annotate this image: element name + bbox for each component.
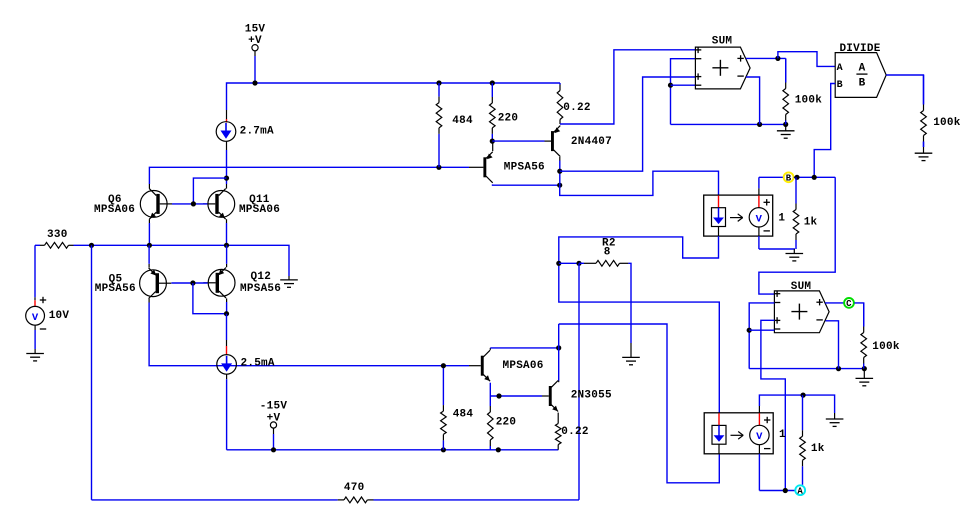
- junction bottom base link: [190, 280, 195, 285]
- junction node B / 1k: [794, 175, 799, 180]
- meter block HB (current-controlled V source): [704, 195, 773, 236]
- wire 2N3055 base net: [490, 395, 542, 397]
- wire node A left segment: [759, 490, 795, 492]
- junction node A / SUM2 input3 branch: [783, 488, 788, 493]
- wire Q5 collector up to rail: [148, 245, 150, 263]
- ground (SUM2 output network): [856, 369, 874, 386]
- wire HA V+ black stub: [758, 406, 760, 413]
- wire SUM2 input3 (+) from node A net: [761, 320, 785, 490]
- junction rail / feedback column: [89, 243, 94, 248]
- ground (R2): [622, 343, 640, 365]
- wire 2N3055 collector node vertical: [558, 324, 560, 381]
- svg-text:SUM: SUM: [712, 36, 733, 48]
- wire HB current return via R2 node to HA current input: [559, 236, 720, 413]
- svg-text:A: A: [837, 63, 843, 74]
- junction rail / Q11-Q12: [224, 243, 229, 248]
- svg-text:2N4407: 2N4407: [571, 136, 612, 148]
- svg-text:-15V: -15V: [260, 401, 288, 413]
- node A (cyan): [795, 485, 805, 496]
- junction SUM2 input4: [747, 328, 752, 333]
- wire 15V stem: [254, 56, 256, 83]
- wire SUM1 ground net horizontal: [671, 123, 786, 125]
- wire MPSA06 emitter down / 220b top: [489, 383, 491, 406]
- svg-text:484: 484: [453, 408, 474, 420]
- resistor 100k (SUM1 output): [783, 58, 789, 124]
- wire V1 - black lead: [34, 325, 36, 330]
- wire HA V- down to node A wire: [758, 454, 760, 491]
- wire 2N4407 node to SUM1 input3 (+): [560, 77, 696, 171]
- wire node B left segment: [759, 176, 784, 178]
- svg-text:SUM: SUM: [791, 281, 812, 293]
- wire V1 + black lead: [34, 297, 36, 300]
- wire Q12 top black lead: [226, 264, 228, 267]
- junction 484b / base net: [441, 363, 446, 368]
- resistor 100k (DIVIDE output): [921, 75, 927, 147]
- wire SUM1 out+ down to 100k: [785, 58, 787, 82]
- wire -15V stem black stub: [273, 428, 275, 434]
- wire DIVIDE input B from node B: [814, 84, 835, 178]
- wire Q11 emitter black lead: [226, 219, 228, 223]
- wire 0.22/2N4407 node to SUM1 input1 (+): [560, 50, 695, 124]
- wire MPSA06 base black lead: [469, 365, 481, 367]
- svg-text:100k: 100k: [933, 117, 961, 129]
- junction node B / DIVIDE B branch: [812, 175, 817, 180]
- wire MPSA56 emitter to node: [493, 183, 560, 186]
- wire Q6 emitter black lead: [148, 219, 150, 223]
- resistor 1k (node B): [793, 177, 799, 249]
- svg-text:DIVIDE: DIVIDE: [839, 43, 880, 55]
- wire I1 bottom black lead: [226, 141, 228, 150]
- wire rail to R 330 left: [35, 244, 40, 246]
- svg-text:470: 470: [344, 482, 365, 494]
- wire bottom rail left of 470: [92, 499, 338, 501]
- svg-text:15V: 15V: [245, 23, 266, 35]
- svg-text:V: V: [756, 213, 763, 225]
- svg-text:2N3055: 2N3055: [571, 389, 612, 401]
- wire Q11 collector: [226, 178, 228, 184]
- wire HB V+ up to node B wire: [758, 177, 760, 188]
- svg-text:B: B: [859, 78, 866, 90]
- junction 100k / ground net: [783, 122, 788, 127]
- transistor 2N3055 (bottom output, NPN): [549, 381, 558, 412]
- wire emitter rail to ground: [74, 245, 290, 272]
- resistor 484 (top): [436, 83, 442, 167]
- ground (HB minus): [786, 249, 804, 261]
- wire Q11 collector black lead: [226, 184, 228, 189]
- op block DIVIDE (U3): [835, 53, 886, 98]
- ground (HA plus): [826, 413, 844, 426]
- svg-text:0.22: 0.22: [561, 426, 588, 438]
- wire R2 left node: [559, 262, 579, 264]
- current source I1 2.7mA: [216, 122, 236, 142]
- svg-text:2.5mA: 2.5mA: [241, 357, 275, 369]
- junction rail / 220b: [496, 447, 501, 452]
- wire I2 bottom black lead: [226, 374, 228, 379]
- svg-text:MPSA06: MPSA06: [94, 204, 135, 216]
- wire I2 top: [226, 314, 228, 340]
- wire R2 left node down to bottom feedback rail: [578, 263, 580, 500]
- wire HB V- down: [758, 236, 760, 249]
- wire MPSA56 collector lead up: [492, 141, 494, 151]
- transistor MPSA56 (top driver, PNP): [483, 152, 492, 183]
- ground (emitter rail): [280, 272, 298, 287]
- svg-text:MPSA56: MPSA56: [504, 162, 545, 174]
- transistor 2N4407 (top output, PNP): [551, 126, 560, 157]
- junction Q12 / I2: [224, 311, 229, 316]
- wire node B right segment: [794, 176, 835, 178]
- wire Q12 bottom black lead: [226, 298, 228, 302]
- node B (yellow): [784, 172, 794, 183]
- wire HB V+ black stub: [758, 188, 760, 195]
- wire Q11 emitter down to rail: [226, 223, 228, 245]
- node C (green): [844, 298, 854, 309]
- resistor 220 (top): [490, 83, 496, 141]
- junction 484 bottom / Q6 collector net: [436, 165, 441, 170]
- wire 2N4407 lower lead down: [559, 161, 561, 186]
- wire SUM2 out- to ground net: [826, 321, 839, 369]
- wire SUM1 input2 (-) to ground net: [671, 59, 696, 125]
- transistor Q6 MPSA06 (NPN, circled): [140, 189, 172, 220]
- wire Q5 top black lead: [148, 264, 150, 268]
- wire Q5 bottom black lead: [148, 299, 150, 303]
- wire HB V- to ground node: [759, 248, 795, 250]
- junction rail / Q6-Q5: [147, 243, 152, 248]
- resistor 1k (node A): [800, 395, 806, 485]
- svg-text:100k: 100k: [795, 94, 823, 106]
- svg-text:Q12: Q12: [251, 271, 272, 283]
- svg-text:8: 8: [604, 247, 611, 259]
- wire SUM2 out+ to node C: [825, 302, 844, 304]
- wire node B down to SUM2 input1 (+): [759, 177, 835, 294]
- wire 2N3055 base black lead: [542, 395, 549, 397]
- wire Q6 collector to 484/MPSA56 base net: [149, 167, 469, 184]
- junction SUM1 out+ / divide branch: [775, 56, 780, 61]
- wire I1 top red tick: [226, 119, 228, 123]
- wire SUM2 input2 (-) to ground net: [749, 303, 774, 369]
- junction 220 / MPSA56 / 2N4407 base: [490, 139, 495, 144]
- ground (V1): [26, 349, 44, 361]
- wire 2N3055 emitter black lead: [557, 413, 559, 424]
- wire 2N4407 base net: [492, 140, 544, 142]
- wire node C to 100k: [854, 303, 863, 327]
- svg-text:MPSA06: MPSA06: [239, 204, 280, 216]
- svg-text:330: 330: [47, 229, 68, 241]
- resistor 470 (horizontal): [338, 497, 374, 503]
- voltage source V1 10V: [26, 306, 45, 325]
- wire SUM1 out- to ground net: [746, 77, 760, 124]
- junction R2 left / feedback to bottom rail: [576, 261, 581, 266]
- transistor Q5 MPSA56 (PNP, circled): [140, 268, 172, 299]
- junction MPSA06 collector / 2N3055 collector / meter A return: [556, 345, 561, 350]
- wire +15V rail: [227, 83, 561, 110]
- wire MPSA06 collector to 2N3055 collector node: [490, 347, 558, 349]
- junction rail / R 484 top: [436, 80, 441, 85]
- wire 2N4407 collector black lead: [559, 157, 561, 161]
- op block SUM (U2, bottom): [774, 291, 829, 333]
- wire Q12 bottom: [226, 302, 228, 314]
- current source I2 2.5mA: [217, 355, 237, 375]
- wire SUM1 out+ to DIVIDE input A: [778, 52, 835, 67]
- wire 2N4407 base black lead: [545, 140, 552, 142]
- junction 15V stem / rail: [252, 80, 257, 85]
- wire 2N3055 collector black lead: [558, 381, 560, 383]
- junction 2N4407 collector / SUM1 in3 net: [557, 169, 562, 174]
- resistor R2 (8 ohm, horizontal): [579, 260, 628, 266]
- junction -15V supply / rail: [271, 447, 276, 452]
- wire Q6-Q11 base link: [172, 203, 207, 205]
- junction R2 left / meter loops: [556, 261, 561, 266]
- svg-text:100k: 100k: [872, 341, 900, 353]
- junction MPSA56 emitter net: [557, 183, 562, 188]
- junction SUM2 out- / ground net: [836, 366, 841, 371]
- svg-text:220: 220: [496, 417, 517, 429]
- wire R2 right to ground: [628, 263, 631, 343]
- svg-text:0.22: 0.22: [563, 102, 590, 114]
- wire V1 - to ground: [34, 330, 36, 349]
- wire -15V rail: [227, 449, 559, 451]
- wire SUM1 out+: [746, 57, 786, 59]
- wire I1 top black lead: [226, 110, 228, 119]
- svg-text:A: A: [859, 62, 866, 74]
- wire MPSA06 collector stub: [489, 348, 491, 350]
- ground (SUM1 output network): [777, 124, 795, 138]
- svg-text:2.7mA: 2.7mA: [240, 126, 274, 138]
- svg-text:1k: 1k: [811, 443, 825, 455]
- wire emitter node to meter HB current input: [560, 171, 719, 195]
- resistor R 330 (horizontal): [40, 242, 74, 248]
- wire Q6 collector black lead: [148, 184, 150, 189]
- svg-text:10V: 10V: [49, 310, 70, 322]
- wire diode-connect Q11 collector to bases: [193, 178, 226, 204]
- wire SUM2 input4 (-): [749, 329, 774, 331]
- wire I2 top black lead: [226, 340, 228, 346]
- transistor Q12 MPSA56 (PNP, circled, mirrored): [203, 268, 235, 299]
- wire I1 bottom to Q11 collector node: [226, 150, 228, 178]
- wire Q5 emitter to bottom MPSA06 base net: [149, 303, 469, 366]
- wire I2 bottom to -15V rail: [226, 379, 228, 450]
- svg-text:484: 484: [452, 115, 473, 127]
- meter block HA (current-controlled V source): [704, 413, 773, 454]
- junction MPSA06 emitter / 2N3055 base: [496, 393, 501, 398]
- ground (DIVIDE output): [915, 142, 933, 161]
- wire SUM2 ground net horizontal: [749, 368, 864, 370]
- svg-text:MPSA56: MPSA56: [240, 283, 281, 295]
- junction rail / R 220 top: [490, 80, 495, 85]
- svg-text:A: A: [797, 487, 803, 497]
- svg-text:V: V: [756, 431, 763, 443]
- svg-text:1k: 1k: [804, 216, 818, 228]
- wire meter HA current return to 2N3055 collector node: [559, 324, 720, 483]
- wire 15V stem black stub: [254, 51, 256, 56]
- svg-text:C: C: [846, 299, 852, 309]
- wire -15V stem: [273, 434, 275, 450]
- wire Q5-Q12 base link: [171, 282, 207, 284]
- wire MPSA56 base black lead: [469, 166, 483, 168]
- svg-text:V: V: [32, 312, 39, 324]
- wire SUM1 input4 (-): [671, 84, 696, 86]
- op block SUM (U1, top): [695, 47, 750, 89]
- resistor 0.22 (top): [557, 83, 563, 124]
- transistor MPSA06 (bottom driver, NPN): [481, 350, 490, 381]
- transistor Q11 MPSA06 (NPN, circled, mirrored): [203, 189, 235, 220]
- svg-text:MPSA06: MPSA06: [503, 360, 544, 372]
- wire Q6 emitter down to rail: [148, 223, 150, 245]
- junction I1 / Q11 collector / diode link: [224, 176, 229, 181]
- svg-text:MPSA56: MPSA56: [95, 283, 136, 295]
- resistor 220 (bottom): [488, 406, 494, 450]
- junction base link / diode link: [191, 201, 196, 206]
- svg-text:B: B: [837, 80, 843, 91]
- wire diode-connect Q12 to bases: [193, 283, 227, 314]
- resistor 0.22 (bottom): [555, 424, 561, 450]
- wire bottom rail right of 470: [374, 499, 580, 501]
- svg-text:1: 1: [779, 429, 786, 441]
- junction SUM1 input4: [668, 83, 673, 88]
- resistor 484 (bottom): [441, 366, 447, 450]
- junction HA V+ net / 1k A: [801, 393, 806, 398]
- junction rail / 484b: [441, 447, 446, 452]
- wire rail down to V1 +: [34, 245, 36, 297]
- junction 100k C / ground net: [862, 366, 867, 371]
- junction SUM1 out- / ground net: [757, 122, 762, 127]
- svg-text:B: B: [786, 174, 792, 184]
- wire DIVIDE output to 100k: [886, 75, 923, 105]
- power symbol +V (15V supply): [245, 23, 266, 51]
- svg-text:1: 1: [778, 212, 785, 224]
- wire feedback column x=91.5: [91, 245, 93, 500]
- wire Q12 top to rail: [226, 245, 228, 263]
- wire V1 + red tick: [34, 300, 36, 306]
- wire HA V+ to ground branch: [759, 395, 834, 413]
- svg-text:220: 220: [498, 113, 519, 125]
- power symbol +V (-15V supply): [260, 401, 288, 429]
- wire I2 top red tick: [226, 346, 228, 354]
- resistor 100k (node C): [861, 303, 867, 369]
